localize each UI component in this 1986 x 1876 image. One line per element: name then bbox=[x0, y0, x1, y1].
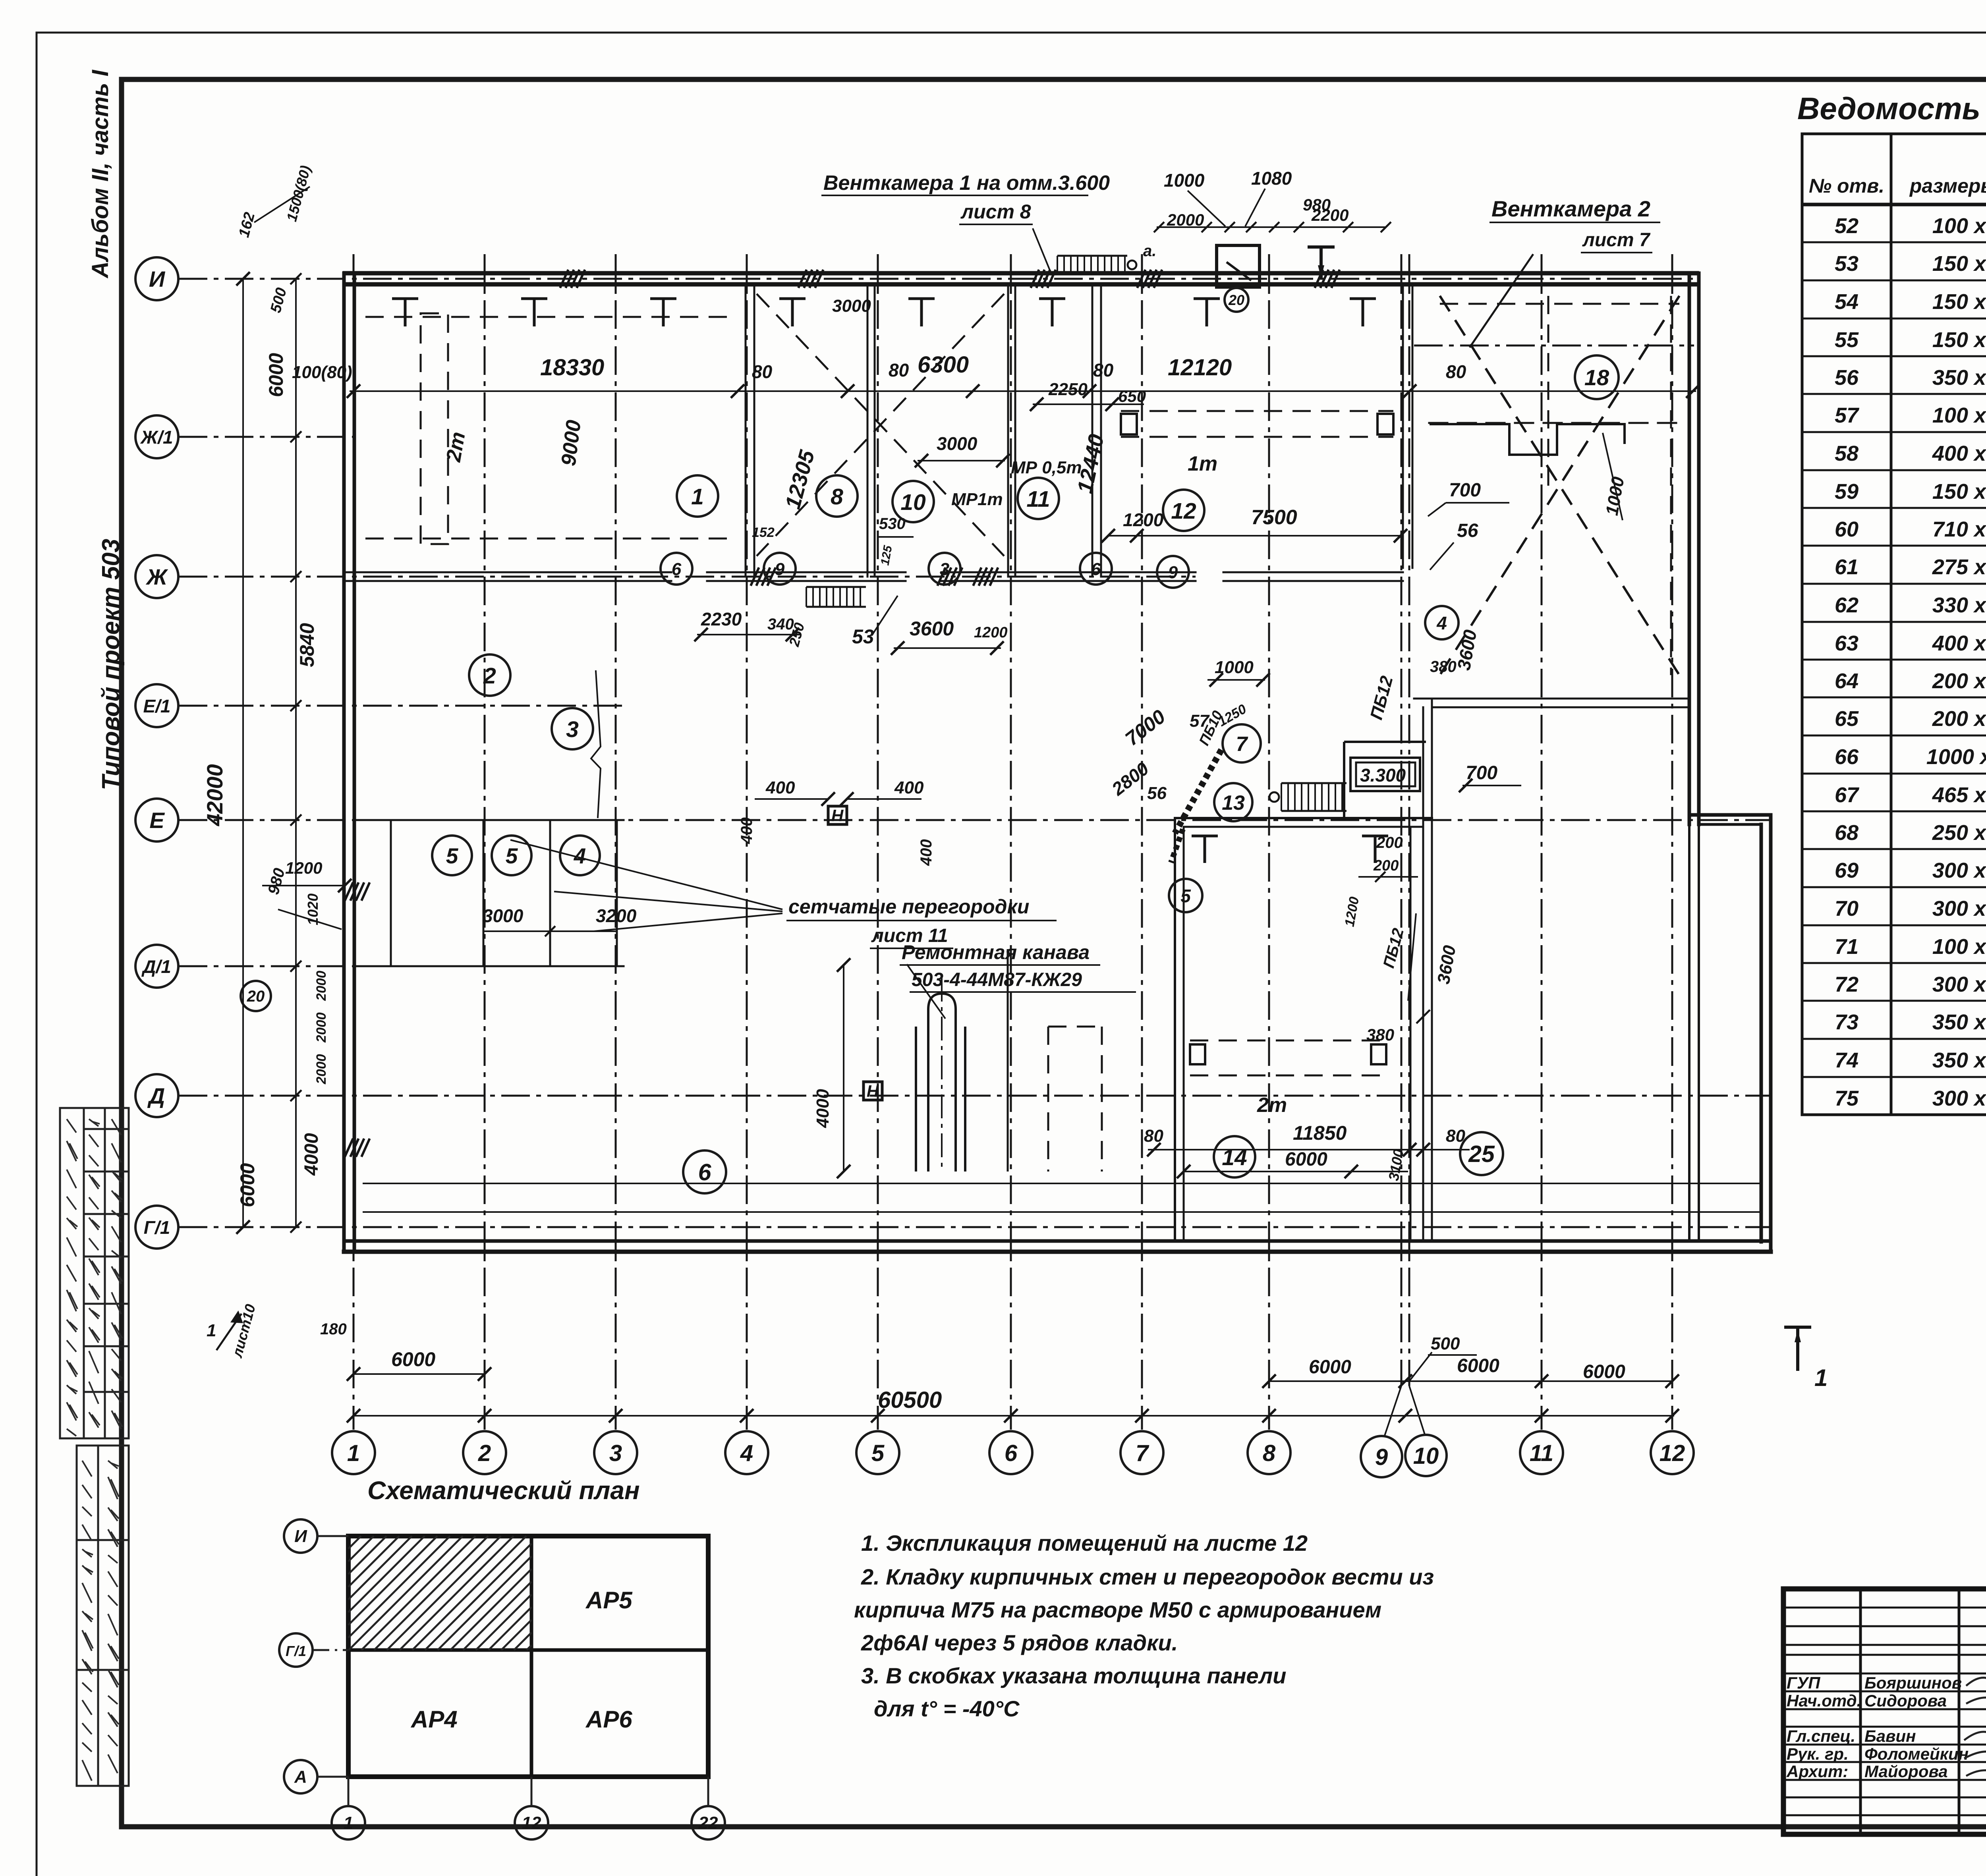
svg-text:400: 400 bbox=[918, 839, 935, 866]
svg-text:6000: 6000 bbox=[236, 1163, 259, 1207]
svg-text:1: 1 bbox=[691, 484, 704, 510]
svg-text:Альбом II, часть I: Альбом II, часть I bbox=[87, 69, 113, 279]
svg-text:20: 20 bbox=[1228, 292, 1244, 308]
svg-text:6: 6 bbox=[698, 1159, 712, 1185]
svg-text:И: И bbox=[294, 1527, 307, 1546]
svg-text:АР6: АР6 bbox=[585, 1706, 632, 1733]
svg-text:75: 75 bbox=[1835, 1087, 1859, 1110]
svg-text:5: 5 bbox=[506, 843, 518, 868]
svg-text:9: 9 bbox=[1375, 1444, 1388, 1470]
svg-text:2250: 2250 bbox=[1048, 380, 1088, 399]
svg-text:57: 57 bbox=[1835, 403, 1860, 427]
svg-text:300 х 300: 300 х 300 bbox=[1932, 973, 1986, 996]
svg-text:6300: 6300 bbox=[918, 352, 969, 378]
svg-text:кирпича М75 на растворе М50: кирпича М75 на растворе М50 с армировани… bbox=[854, 1597, 1381, 1622]
svg-text:100 х 100: 100 х 100 bbox=[1932, 214, 1986, 238]
svg-text:20: 20 bbox=[247, 988, 265, 1005]
svg-text:Венткамера 1 на отм.3.600: Венткамера 1 на отм.3.600 bbox=[823, 172, 1110, 195]
svg-text:100 х 100: 100 х 100 bbox=[1932, 935, 1986, 959]
svg-text:Фоломейкин: Фоломейкин bbox=[1864, 1745, 1969, 1763]
svg-text:9: 9 bbox=[775, 560, 785, 579]
svg-text:6000: 6000 bbox=[1285, 1149, 1327, 1170]
svg-text:Д: Д bbox=[147, 1083, 165, 1108]
svg-text:12: 12 bbox=[522, 1813, 541, 1833]
svg-text:3000: 3000 bbox=[937, 433, 978, 454]
svg-text:Нач.отд.: Нач.отд. bbox=[1787, 1691, 1861, 1710]
svg-text:63: 63 bbox=[1835, 631, 1858, 655]
svg-text:7: 7 bbox=[1136, 1440, 1149, 1466]
svg-text:67: 67 bbox=[1835, 783, 1860, 807]
svg-text:3000: 3000 bbox=[483, 905, 524, 926]
svg-text:3600: 3600 bbox=[910, 618, 954, 640]
svg-text:400 х 400: 400 х 400 bbox=[1932, 631, 1986, 655]
svg-text:1: 1 bbox=[1814, 1365, 1828, 1391]
svg-text:54: 54 bbox=[1835, 290, 1858, 314]
svg-text:5: 5 bbox=[1180, 886, 1191, 906]
svg-text:размеры отв.: размеры отв. bbox=[1909, 175, 1986, 197]
svg-text:65: 65 bbox=[1835, 707, 1859, 731]
svg-text:для t° = -40°С: для t° = -40°С bbox=[874, 1696, 1020, 1721]
svg-text:4000: 4000 bbox=[813, 1089, 833, 1128]
svg-text:64: 64 bbox=[1835, 669, 1858, 693]
svg-text:80: 80 bbox=[1446, 361, 1466, 382]
svg-text:80: 80 bbox=[752, 361, 773, 382]
svg-text:150 х 150: 150 х 150 bbox=[1932, 328, 1986, 352]
svg-text:Майорова: Майорова bbox=[1864, 1762, 1948, 1781]
svg-text:150 х 150: 150 х 150 bbox=[1932, 480, 1986, 504]
svg-text:18: 18 bbox=[1584, 365, 1609, 390]
svg-text:6: 6 bbox=[672, 560, 682, 579]
svg-text:200: 200 bbox=[1376, 834, 1403, 851]
svg-text:465 х 465: 465 х 465 bbox=[1932, 783, 1986, 807]
svg-text:22: 22 bbox=[698, 1813, 718, 1833]
svg-text:2ф6АI через 5 рядов кладки.: 2ф6АI через 5 рядов кладки. bbox=[861, 1630, 1178, 1655]
svg-text:650: 650 bbox=[1118, 387, 1146, 405]
svg-text:300 х 300: 300 х 300 bbox=[1932, 1087, 1986, 1110]
svg-text:сетчатые перегородки: сетчатые перегородки bbox=[788, 896, 1029, 918]
svg-text:Архит:: Архит: bbox=[1786, 1762, 1848, 1781]
svg-text:500: 500 bbox=[1431, 1334, 1460, 1353]
svg-text:300 х 300: 300 х 300 bbox=[1932, 897, 1986, 921]
svg-text:73: 73 bbox=[1835, 1010, 1858, 1034]
svg-text:Д/1: Д/1 bbox=[141, 956, 171, 977]
svg-text:56: 56 bbox=[1457, 520, 1478, 541]
svg-text:62: 62 bbox=[1835, 593, 1858, 617]
svg-text:Ведомость отверстий: Ведомость отверстий bbox=[1797, 91, 1986, 126]
svg-text:60: 60 bbox=[1835, 517, 1858, 541]
svg-text:180: 180 bbox=[320, 1320, 347, 1338]
svg-text:2000: 2000 bbox=[314, 1012, 329, 1043]
svg-text:Схематический план: Схематический план bbox=[367, 1476, 640, 1505]
svg-text:3000: 3000 bbox=[832, 296, 871, 316]
svg-text:350 х 400: 350 х 400 bbox=[1932, 1048, 1986, 1072]
svg-text:Г/1: Г/1 bbox=[286, 1643, 306, 1659]
svg-text:Ж/1: Ж/1 bbox=[140, 427, 173, 448]
svg-text:6000: 6000 bbox=[1583, 1361, 1625, 1382]
svg-text:10: 10 bbox=[900, 490, 926, 515]
svg-text:2. Кладку кирпичных стен и: 2. Кладку кирпичных стен и перегородок в… bbox=[861, 1564, 1434, 1589]
svg-text:12: 12 bbox=[1171, 498, 1196, 524]
svg-text:Е/1: Е/1 bbox=[143, 696, 170, 716]
svg-text:1: 1 bbox=[347, 1440, 360, 1466]
svg-text:18330: 18330 bbox=[540, 355, 604, 380]
svg-text:№ отв.: № отв. bbox=[1809, 175, 1884, 197]
svg-text:200 х 200: 200 х 200 bbox=[1932, 669, 1986, 693]
svg-text:9: 9 bbox=[1168, 563, 1178, 582]
svg-text:350 х 500: 350 х 500 bbox=[1932, 366, 1986, 390]
svg-text:80: 80 bbox=[1144, 1126, 1163, 1146]
svg-text:а.: а. bbox=[1143, 242, 1156, 260]
svg-text:1т: 1т bbox=[1188, 452, 1217, 475]
svg-text:150 х 150: 150 х 150 bbox=[1932, 252, 1986, 276]
svg-text:Венткамера 2: Венткамера 2 bbox=[1491, 196, 1650, 221]
svg-text:Е: Е bbox=[149, 808, 165, 833]
svg-text:1000 х 300: 1000 х 300 bbox=[1926, 745, 1986, 769]
svg-text:Сидорова: Сидорова bbox=[1864, 1691, 1947, 1710]
svg-text:2т: 2т bbox=[1257, 1094, 1287, 1117]
svg-text:10: 10 bbox=[1413, 1443, 1439, 1469]
svg-text:6000: 6000 bbox=[265, 353, 287, 397]
svg-text:Н: Н bbox=[831, 806, 844, 825]
svg-text:1200: 1200 bbox=[285, 859, 322, 877]
svg-text:52: 52 bbox=[1835, 214, 1858, 238]
svg-text:60500: 60500 bbox=[878, 1387, 942, 1413]
svg-text:МР1т: МР1т bbox=[951, 490, 1003, 509]
svg-text:3.300: 3.300 bbox=[1360, 765, 1406, 786]
svg-text:1: 1 bbox=[344, 1813, 353, 1833]
svg-text:11850: 11850 bbox=[1293, 1122, 1347, 1144]
svg-text:350 х 300: 350 х 300 bbox=[1932, 1010, 1986, 1034]
svg-text:56: 56 bbox=[1835, 366, 1859, 390]
svg-text:7500: 7500 bbox=[1251, 506, 1297, 529]
svg-text:3. В скобках указана толщи: 3. В скобках указана толщина панели bbox=[861, 1663, 1286, 1688]
svg-text:И: И bbox=[149, 266, 166, 291]
svg-text:74: 74 bbox=[1835, 1048, 1858, 1072]
svg-text:53: 53 bbox=[1835, 252, 1858, 276]
svg-text:4: 4 bbox=[740, 1440, 753, 1466]
svg-text:2200: 2200 bbox=[1311, 206, 1348, 224]
svg-text:МР 0,5т: МР 0,5т bbox=[1011, 458, 1082, 477]
svg-text:А: А bbox=[294, 1767, 307, 1787]
svg-text:13: 13 bbox=[1222, 791, 1245, 814]
svg-text:12120: 12120 bbox=[1168, 355, 1232, 380]
svg-text:25: 25 bbox=[1468, 1141, 1495, 1167]
svg-text:69: 69 bbox=[1835, 859, 1858, 882]
svg-text:лист 8: лист 8 bbox=[960, 201, 1031, 223]
svg-text:150 х 150: 150 х 150 bbox=[1932, 290, 1986, 314]
svg-text:Г/1: Г/1 bbox=[144, 1217, 170, 1238]
svg-text:72: 72 bbox=[1835, 973, 1858, 996]
svg-text:6: 6 bbox=[1005, 1440, 1018, 1466]
svg-text:Рук. гр.: Рук. гр. bbox=[1787, 1745, 1849, 1763]
svg-text:11: 11 bbox=[1026, 486, 1050, 512]
svg-text:380: 380 bbox=[1430, 658, 1457, 676]
svg-text:61: 61 bbox=[1835, 555, 1858, 579]
svg-text:5: 5 bbox=[446, 843, 459, 868]
svg-text:70: 70 bbox=[1835, 897, 1858, 921]
svg-text:275 х 275: 275 х 275 bbox=[1932, 555, 1986, 579]
svg-text:300 х 300: 300 х 300 bbox=[1932, 859, 1986, 882]
svg-text:Типовой проект 503: Типовой проект 503 bbox=[97, 539, 125, 790]
svg-text:8: 8 bbox=[1263, 1440, 1276, 1466]
svg-text:7: 7 bbox=[1236, 733, 1248, 756]
svg-text:200: 200 bbox=[1373, 857, 1399, 874]
svg-text:6: 6 bbox=[1091, 560, 1101, 579]
svg-text:400: 400 bbox=[738, 817, 755, 844]
svg-text:11: 11 bbox=[1530, 1440, 1553, 1466]
svg-text:1200: 1200 bbox=[1123, 510, 1164, 530]
svg-text:400: 400 bbox=[894, 778, 924, 797]
svg-text:68: 68 bbox=[1835, 821, 1858, 845]
svg-text:1: 1 bbox=[207, 1321, 216, 1340]
svg-text:710 х 420: 710 х 420 bbox=[1932, 517, 1986, 541]
svg-text:2: 2 bbox=[483, 663, 496, 689]
svg-text:АР4: АР4 bbox=[410, 1706, 458, 1733]
svg-text:250 х 350: 250 х 350 bbox=[1932, 821, 1986, 845]
svg-text:6000: 6000 bbox=[1309, 1357, 1351, 1378]
svg-text:55: 55 bbox=[1835, 328, 1859, 352]
svg-text:400: 400 bbox=[765, 778, 795, 797]
svg-text:42000: 42000 bbox=[202, 764, 227, 826]
svg-text:58: 58 bbox=[1835, 442, 1858, 465]
svg-text:380: 380 bbox=[1366, 1025, 1394, 1044]
svg-text:80: 80 bbox=[1093, 360, 1114, 380]
svg-text:12: 12 bbox=[1660, 1440, 1685, 1466]
svg-text:2000: 2000 bbox=[314, 971, 329, 1001]
svg-text:2000: 2000 bbox=[1167, 210, 1204, 229]
svg-text:5840: 5840 bbox=[296, 623, 318, 667]
svg-text:6000: 6000 bbox=[1457, 1355, 1499, 1376]
svg-text:5: 5 bbox=[871, 1440, 885, 1466]
svg-text:4: 4 bbox=[1436, 613, 1447, 633]
svg-text:1. Экспликация помещений на: 1. Экспликация помещений на листе 12 bbox=[861, 1531, 1308, 1556]
svg-text:лист 7: лист 7 bbox=[1582, 230, 1651, 251]
svg-text:3: 3 bbox=[566, 717, 579, 742]
svg-text:59: 59 bbox=[1835, 480, 1858, 504]
svg-text:100(80): 100(80) bbox=[292, 363, 352, 382]
svg-text:6000: 6000 bbox=[391, 1348, 435, 1370]
svg-text:1200: 1200 bbox=[974, 624, 1008, 641]
svg-text:200 х 200: 200 х 200 bbox=[1932, 707, 1986, 731]
svg-text:3: 3 bbox=[940, 560, 949, 579]
svg-text:1080: 1080 bbox=[1251, 168, 1292, 189]
svg-text:1000: 1000 bbox=[1164, 170, 1205, 191]
svg-text:2000: 2000 bbox=[314, 1054, 329, 1085]
svg-text:53: 53 bbox=[852, 625, 874, 648]
svg-text:330 х 330: 330 х 330 bbox=[1932, 593, 1986, 617]
svg-text:700: 700 bbox=[1449, 480, 1481, 501]
svg-text:3200: 3200 bbox=[596, 905, 637, 926]
svg-text:4000: 4000 bbox=[301, 1133, 322, 1176]
svg-text:лист 11: лист 11 bbox=[871, 925, 948, 946]
svg-text:2230: 2230 bbox=[701, 609, 742, 629]
svg-text:100 х 100: 100 х 100 bbox=[1932, 403, 1986, 427]
svg-text:Н: Н bbox=[867, 1082, 879, 1100]
svg-text:66: 66 bbox=[1835, 745, 1859, 769]
svg-text:4: 4 bbox=[574, 843, 586, 868]
svg-text:80: 80 bbox=[889, 360, 909, 380]
svg-text:152: 152 bbox=[752, 525, 775, 540]
svg-text:АР5: АР5 bbox=[585, 1587, 633, 1614]
svg-text:ГУП: ГУП bbox=[1787, 1673, 1820, 1692]
svg-text:8: 8 bbox=[831, 484, 843, 510]
svg-text:56: 56 bbox=[1147, 784, 1167, 803]
svg-text:3: 3 bbox=[609, 1440, 622, 1466]
svg-text:400 х 400: 400 х 400 bbox=[1932, 442, 1986, 465]
svg-text:2: 2 bbox=[478, 1440, 491, 1466]
svg-text:Бавин: Бавин bbox=[1864, 1727, 1916, 1745]
svg-text:Ж: Ж bbox=[145, 564, 168, 589]
svg-text:71: 71 bbox=[1835, 935, 1858, 959]
svg-text:Гл.спец.: Гл.спец. bbox=[1787, 1727, 1855, 1745]
svg-text:14: 14 bbox=[1222, 1145, 1247, 1170]
svg-text:503-4-44М87-КЖ29: 503-4-44М87-КЖ29 bbox=[912, 969, 1082, 990]
svg-text:Бояршинов: Бояршинов bbox=[1864, 1673, 1962, 1692]
